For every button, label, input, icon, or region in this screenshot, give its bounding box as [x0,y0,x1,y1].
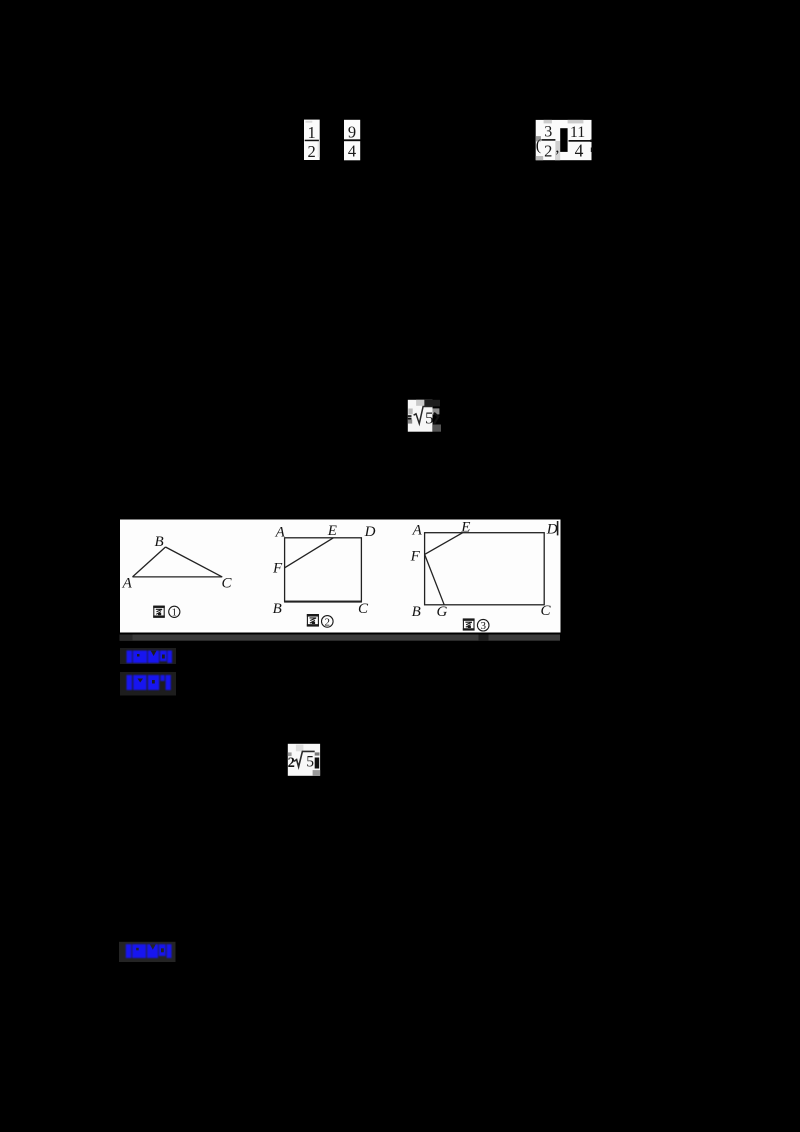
2*sqrt(5) image patch [283,741,326,779]
fraction 9/4 image patch [343,119,362,161]
side AC [133,576,223,578]
blue link box 3 【答案】 [116,939,179,965]
figure 1: triangle ABC [133,547,223,577]
svg-text:2: 2 [307,142,315,161]
blue link box 2 【解析】 [117,669,179,698]
fraction 1/2 image patch [303,119,321,161]
right parenthesis (clipped) [590,140,592,143]
svg-text:9: 9 [348,123,356,142]
blue link box 1 【答案】 [117,645,179,667]
sqrt(5) image patch [397,398,442,434]
svg-text:1: 1 [172,608,177,619]
svg-text:C: C [358,601,369,617]
svg-text:2: 2 [288,755,295,771]
svg-text:1: 1 [307,123,315,142]
svg-text:3: 3 [544,124,552,141]
svg-text:G: G [437,604,448,620]
caption 图③ [463,619,489,631]
svg-text:4: 4 [575,141,584,161]
equals sign clipped at left edge [408,415,412,417]
svg-text:C: C [222,576,233,592]
svg-text:3: 3 [480,620,486,632]
svg-text:E: E [327,523,337,539]
figure 3: rectangle ABCD with E,F,G [425,533,545,605]
svg-text:B: B [412,604,421,620]
caption 图① [154,606,180,617]
svg-text:C: C [541,603,552,619]
gray shadow bar under strip [120,635,561,641]
radical sign [294,751,315,766]
svg-text:A: A [275,525,286,541]
radical sign [414,407,433,424]
svg-text:B: B [155,534,164,550]
svg-text:B: B [273,601,282,617]
svg-text:11: 11 [570,124,585,141]
svg-text:2: 2 [544,142,552,161]
rectangle ABCD [285,538,362,602]
svg-text:5: 5 [306,754,314,771]
segment FG [425,554,445,604]
dark block top-right [424,400,440,407]
white strip background [120,520,561,633]
clipped glyph at right [315,758,320,769]
side AB [133,547,166,577]
svg-text:,: , [555,139,559,156]
clipped glyph at right [434,413,438,424]
svg-text:5: 5 [425,408,434,427]
side BC [166,547,223,577]
svg-text:D: D [364,524,376,540]
geometry figures strip (three figures) [119,518,562,643]
segment FE [285,538,334,568]
thick bottom edge BC [284,601,362,603]
svg-text:D: D [546,522,558,538]
svg-text:F: F [410,548,421,564]
svg-text:F: F [272,560,283,576]
black gap block between fraction patches [560,128,567,152]
svg-text:(: ( [536,137,541,154]
figure 2: rectangle ABCD with E,F [284,538,362,602]
rectangle ABCD [425,533,545,605]
svg-text:4: 4 [348,142,356,161]
coordinate point (3/2, 11/4) image patch [535,119,594,162]
caption 图② [307,615,333,628]
dark tick near D [557,521,559,535]
segment EF [425,533,463,555]
svg-text:2: 2 [325,616,331,628]
svg-text:A: A [412,523,423,539]
svg-text:E: E [460,520,470,536]
svg-text:A: A [122,576,133,592]
